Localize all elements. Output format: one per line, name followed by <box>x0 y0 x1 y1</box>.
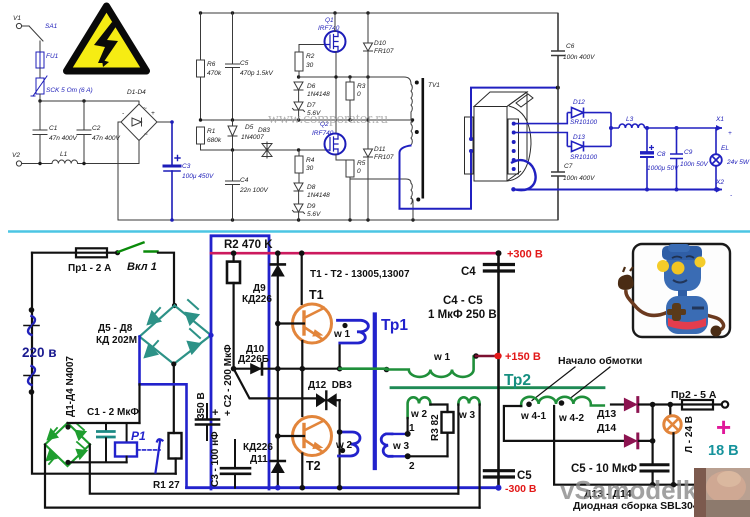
junction <box>671 482 677 488</box>
wire w4 left leg to D14 row <box>504 406 624 441</box>
node +150 dot on column crossing <box>495 353 501 359</box>
switch SA1 <box>22 23 58 41</box>
bridge rectifier D1-D4 <box>121 89 157 141</box>
robot fist right <box>711 326 722 337</box>
junction <box>199 11 202 14</box>
svg-text:w 2: w 2 <box>410 409 428 420</box>
svg-text:1N4007: 1N4007 <box>241 134 264 141</box>
junction <box>496 485 502 491</box>
capacitor C4 <box>226 150 269 220</box>
svg-text:w 1: w 1 <box>333 329 351 340</box>
svg-text:IRF740: IRF740 <box>318 25 340 32</box>
resistor R3 <box>346 77 366 120</box>
svg-text:КД 202М: КД 202М <box>96 335 137 346</box>
winding w4 Tr2 <box>521 397 604 406</box>
junction <box>115 250 120 255</box>
relay P1 coil <box>115 423 146 462</box>
svg-text:D8: D8 <box>307 184 316 191</box>
pointer line 2 <box>570 367 610 399</box>
junction <box>82 162 85 165</box>
AC source symbol upper <box>24 307 39 335</box>
svg-text:680k: 680k <box>207 137 222 144</box>
wire pink +300V rail <box>211 252 499 255</box>
wire w3 right leg long <box>479 405 481 508</box>
wire T2 emitter <box>301 454 303 488</box>
svg-text:R1: R1 <box>207 128 216 135</box>
wire middle bus <box>201 119 413 121</box>
junction node2 <box>405 453 411 459</box>
secondary pins <box>512 122 516 171</box>
wire dark red to +150 <box>476 355 497 357</box>
wire w3 left leg long <box>457 405 459 494</box>
transistor T2 <box>293 417 332 456</box>
svg-text:D11: D11 <box>374 146 386 153</box>
wire D1-D4 top to relay line <box>68 422 140 424</box>
mosfet Q2 IRF740 <box>312 121 346 155</box>
phase dot <box>415 130 419 134</box>
svg-text:FR107: FR107 <box>374 48 394 55</box>
svg-text:100μ 450V: 100μ 450V <box>182 173 214 180</box>
svg-text:Тр1: Тр1 <box>381 317 408 334</box>
svg-text:R3: R3 <box>357 83 366 90</box>
junction <box>297 218 300 221</box>
junction <box>297 118 300 121</box>
wire w1 bottom to bus <box>339 344 341 369</box>
junction <box>231 118 234 121</box>
junction <box>208 333 213 338</box>
svg-text:КД226: КД226 <box>242 294 272 305</box>
junction <box>172 303 177 308</box>
svg-text:TV1: TV1 <box>428 82 440 89</box>
diode D10 FR107 <box>364 13 394 149</box>
svg-text:18 В: 18 В <box>708 443 739 459</box>
svg-text:C5: C5 <box>517 470 532 482</box>
junction <box>231 148 234 151</box>
junction <box>275 366 281 372</box>
svg-text:0: 0 <box>357 168 361 175</box>
svg-text:R2 470 K: R2 470 K <box>224 239 273 251</box>
junction <box>668 402 674 408</box>
terminal output minus <box>724 480 731 487</box>
wire stub bus to TV1 tap <box>411 121 413 123</box>
junction <box>275 321 281 327</box>
svg-text:D12: D12 <box>573 99 585 106</box>
svg-text:V2: V2 <box>12 152 20 159</box>
svg-text:100n 400V: 100n 400V <box>563 175 595 182</box>
wire switch to bridge top <box>158 253 174 305</box>
junction <box>65 424 70 429</box>
svg-text:1 МкФ 250 В: 1 МкФ 250 В <box>428 309 497 321</box>
svg-text:L3: L3 <box>626 116 634 123</box>
resistor R6 <box>197 13 222 120</box>
phase dot <box>416 198 420 202</box>
zener D9 <box>293 203 322 220</box>
svg-text:Д14: Д14 <box>597 422 616 434</box>
capacitor C4 <box>461 265 513 279</box>
resistor R4 <box>295 150 315 183</box>
svg-text:w 3: w 3 <box>392 441 410 452</box>
junction <box>333 11 336 14</box>
svg-text:Q1: Q1 <box>325 17 334 24</box>
wire gate line Q2 <box>201 149 327 151</box>
junction <box>65 460 70 465</box>
relay contact dashed link <box>137 449 160 451</box>
junction <box>300 485 306 491</box>
wire pin2 to D13 <box>514 133 568 147</box>
svg-text:2: 2 <box>409 461 415 472</box>
wire source bus y77 to TV1 <box>299 77 411 84</box>
wire w2 left leg <box>407 418 409 434</box>
svg-text:~: ~ <box>143 105 147 112</box>
robot plug <box>618 275 634 290</box>
diode D6 <box>294 82 330 102</box>
wire switch to fuse <box>39 41 41 52</box>
svg-text:220 в: 220 в <box>22 345 57 360</box>
wire diagonal to diac row <box>234 369 315 399</box>
svg-text:+: + <box>151 110 155 117</box>
wire drain Q1 to rail <box>334 13 336 32</box>
transformer Tr1 core blue <box>373 315 377 469</box>
junction <box>300 366 306 372</box>
wire w3 leads blue <box>392 434 408 456</box>
wire D5-D8 bottom to R1 <box>173 364 175 433</box>
svg-text:Д226Б: Д226Б <box>238 354 269 365</box>
fuse Pr2 <box>670 400 728 410</box>
inductor L1 <box>22 151 139 164</box>
wire top AC line to bridge <box>40 101 139 104</box>
separator cyan line <box>8 230 750 233</box>
TV1 primary winding lower <box>411 122 412 145</box>
svg-text:+300 В: +300 В <box>507 249 543 261</box>
fuse FU1 <box>36 52 59 68</box>
wire bridge bottom to AC line <box>138 141 140 164</box>
junction <box>411 118 414 121</box>
svg-text:Д1-Д4 N4007: Д1-Д4 N4007 <box>65 356 76 417</box>
transformer Tr2 core green <box>391 386 604 389</box>
node +150V <box>494 353 500 359</box>
svg-text:1N4148: 1N4148 <box>307 91 330 98</box>
relay contact blade <box>156 439 163 472</box>
svg-text:Д11: Д11 <box>250 454 268 465</box>
junction <box>645 188 649 192</box>
resistor R2 <box>295 45 315 78</box>
wire blue bottom rail <box>187 486 499 489</box>
junction <box>496 250 502 256</box>
svg-text:C1: C1 <box>49 125 58 132</box>
terminal V2 <box>12 152 22 166</box>
svg-text:L1: L1 <box>60 151 68 158</box>
wire R2 to gate Q1 <box>299 44 326 46</box>
wire T1 emitter down <box>301 341 303 416</box>
winding left plate <box>465 117 474 174</box>
wire fuse to thermistor <box>39 68 41 78</box>
transformer body isometric <box>474 92 533 181</box>
winding w2 Tr2 <box>408 397 431 418</box>
svg-text:w 1: w 1 <box>433 352 451 363</box>
svg-text:100n 50V: 100n 50V <box>680 161 708 168</box>
svg-text:Тр2: Тр2 <box>504 372 531 389</box>
winding w1 Tr1 primary <box>338 320 369 343</box>
phase dot w1 <box>342 323 347 328</box>
svg-text:R2: R2 <box>306 53 315 60</box>
diode D14 <box>624 434 653 448</box>
svg-text:SR10100: SR10100 <box>570 154 597 161</box>
diode D8 <box>294 183 330 204</box>
svg-text:C5: C5 <box>240 60 249 67</box>
zener D7 <box>293 102 322 120</box>
transformer TV1 core <box>422 78 441 199</box>
svg-text:Вкл 1: Вкл 1 <box>127 261 157 273</box>
lamp EL <box>710 128 750 190</box>
svg-text:КД226: КД226 <box>243 442 273 453</box>
svg-text:~: ~ <box>144 131 148 138</box>
wire bridge plus to C3 <box>157 121 172 123</box>
junction <box>511 187 515 191</box>
svg-text:X2: X2 <box>715 179 724 186</box>
svg-text:C9: C9 <box>684 149 693 156</box>
terminal X1 <box>715 116 732 137</box>
svg-text:470p 1.5kV: 470p 1.5kV <box>240 70 274 77</box>
inductor L3 <box>619 116 715 128</box>
robot arm rope left <box>626 290 668 315</box>
svg-text:C6: C6 <box>566 43 575 50</box>
robot arm rope right <box>700 312 724 330</box>
wire blue from bridge left corner <box>140 337 187 488</box>
pointer line 1 <box>532 367 575 401</box>
svg-text:350 В: 350 В <box>196 392 207 419</box>
svg-text:IRF740: IRF740 <box>312 130 334 137</box>
svg-text:+: + <box>728 130 732 137</box>
svg-text:5.6V: 5.6V <box>307 211 321 218</box>
svg-text:Р1: Р1 <box>131 429 146 443</box>
junction <box>231 250 237 256</box>
pin plate <box>508 119 519 174</box>
svg-text:SA1: SA1 <box>45 23 58 30</box>
junction <box>714 188 718 192</box>
junction <box>170 218 174 222</box>
svg-text:Д5 - Д8: Д5 - Д8 <box>98 323 133 334</box>
svg-text:Д9: Д9 <box>253 283 266 294</box>
wire secondary swoosh to output minus <box>511 160 536 190</box>
wire Q1 source to Q2 drain <box>335 52 337 134</box>
capacitor C5 output <box>641 441 668 485</box>
wire D9-D11 column <box>277 324 279 463</box>
TV1 secondary winding <box>411 183 413 220</box>
svg-text:470k: 470k <box>207 70 222 77</box>
junction <box>337 429 343 435</box>
junction <box>366 218 369 221</box>
svg-text:-300 В: -300 В <box>505 483 537 495</box>
svg-text:C4 - C5: C4 - C5 <box>443 295 483 307</box>
svg-text:R3 82: R3 82 <box>430 414 441 441</box>
capacitor C2 <box>77 101 120 164</box>
capacitor C3 electrolytic <box>164 122 214 220</box>
AC source symbol lower <box>24 366 39 395</box>
wire T1 collector <box>301 253 303 304</box>
wire black bridge-left to C1 line <box>138 384 140 423</box>
junction <box>275 433 281 439</box>
primary pins <box>469 137 473 141</box>
wire C4 column black <box>497 253 500 488</box>
wire T2 base <box>278 435 304 437</box>
capacitor C1 teal <box>97 423 114 462</box>
junction node1 <box>405 431 411 437</box>
diode D13 <box>611 398 670 412</box>
svg-text:24v 5W: 24v 5W <box>726 159 750 166</box>
junction <box>171 361 176 366</box>
resistor R5 <box>336 155 366 221</box>
svg-text:Д12 DB3: Д12 DB3 <box>308 380 352 391</box>
junction <box>348 218 351 221</box>
diode D5 <box>228 120 264 150</box>
svg-text:100n 400V: 100n 400V <box>563 54 595 61</box>
svg-text:R5: R5 <box>357 160 366 167</box>
svg-text:w 3: w 3 <box>458 410 476 421</box>
capacitor C5 pair <box>484 470 532 482</box>
junction <box>337 485 343 491</box>
svg-text:R4: R4 <box>306 157 315 164</box>
high voltage warning sign <box>67 6 147 71</box>
junction <box>609 126 613 130</box>
diode D9 KD226 <box>271 253 285 323</box>
junction <box>38 99 41 102</box>
robot body <box>666 296 708 334</box>
diode D11 FR107 <box>364 146 394 220</box>
junction <box>334 75 337 78</box>
wire mains left loop <box>32 253 176 474</box>
svg-text:D10: D10 <box>374 40 386 47</box>
svg-text:C1 - 2 МкФ: C1 - 2 МкФ <box>87 407 139 418</box>
junction <box>82 99 85 102</box>
svg-text:w 4-1: w 4-1 <box>520 411 546 422</box>
capacitor C6 <box>551 13 595 88</box>
junction <box>297 148 300 151</box>
junction <box>366 11 369 14</box>
svg-text:+150 В: +150 В <box>505 351 541 363</box>
svg-text:C4: C4 <box>240 177 249 184</box>
phase dot w4-2 <box>559 400 565 406</box>
junction <box>675 188 679 192</box>
winding w3 Tr2 <box>458 397 479 404</box>
junction <box>650 402 656 408</box>
junction <box>231 218 234 221</box>
wire pin1 to D12 <box>514 113 568 124</box>
svg-text:C8: C8 <box>657 151 666 158</box>
diode D10 D226B <box>250 363 262 374</box>
resistor R1 27 <box>153 433 182 491</box>
capacitor C7 <box>551 88 595 220</box>
svg-text:22n 100V: 22n 100V <box>239 187 268 194</box>
capacitor C5 <box>226 13 274 120</box>
wire w2 right leg to R3 <box>430 405 447 413</box>
phase dot w4-1 <box>526 402 532 408</box>
svg-text:C3: C3 <box>182 163 191 170</box>
svg-text:30: 30 <box>306 165 314 172</box>
svg-text:w 4-2: w 4-2 <box>558 413 584 424</box>
svg-text:w 2: w 2 <box>335 440 353 451</box>
capacitor C9 <box>670 128 708 190</box>
wire bottom return 2 <box>45 445 480 508</box>
wire middle bus y368 <box>234 368 340 370</box>
svg-text:C3 - 100 нФ: C3 - 100 нФ <box>210 431 221 487</box>
wire center tap down <box>554 406 724 485</box>
thermistor SCK 5 Om <box>31 76 93 96</box>
wire blue primary top <box>471 88 558 139</box>
junction <box>348 75 351 78</box>
svg-text:T2: T2 <box>306 459 321 473</box>
phase dot <box>415 81 419 85</box>
diac DB3 <box>258 127 272 158</box>
wire fuse to switch <box>107 252 117 254</box>
svg-text:SCK 5 Om (6 A): SCK 5 Om (6 A) <box>46 87 93 94</box>
capacitor C8 electrolytic <box>640 128 679 190</box>
winding w2 Tr1 <box>339 432 361 456</box>
junction <box>473 353 479 359</box>
junction <box>366 118 369 121</box>
TV1 primary winding upper <box>411 84 412 120</box>
wire diode join <box>611 113 619 147</box>
svg-text:Начало обмотки: Начало обмотки <box>558 355 642 367</box>
svg-text:D6: D6 <box>307 83 316 90</box>
lamp L24V <box>664 405 681 485</box>
wire diac to w2 node <box>339 400 341 489</box>
svg-text:0: 0 <box>357 91 361 98</box>
winding w3 Tr1 <box>381 434 392 456</box>
svg-text:V1: V1 <box>13 15 21 22</box>
robot head <box>657 244 706 291</box>
wire R5 bottom to TV1 secondary <box>350 179 411 183</box>
svg-text:1N4148: 1N4148 <box>307 192 330 199</box>
diac D12 DB3 <box>316 392 340 410</box>
svg-text:D83: D83 <box>258 127 270 134</box>
svg-text:FU1: FU1 <box>46 53 59 60</box>
junction <box>650 482 656 488</box>
junction <box>199 118 202 121</box>
svg-text:D13: D13 <box>573 134 585 141</box>
junction <box>275 485 281 491</box>
svg-text:1: 1 <box>409 423 415 434</box>
svg-text:1000μ 50V: 1000μ 50V <box>647 165 679 172</box>
svg-text:R1 27: R1 27 <box>153 480 180 491</box>
svg-text:R6: R6 <box>207 61 216 68</box>
wire thermistor down to node <box>39 94 41 101</box>
wire blue box <box>211 236 269 489</box>
phase dot w2 <box>340 448 345 453</box>
robot neck <box>678 290 687 297</box>
svg-text:FR107: FR107 <box>374 154 394 161</box>
wire blue TV1 lower to 3D transformer <box>400 146 472 209</box>
wire black bus end to green w1 <box>384 367 390 373</box>
junction <box>348 118 351 121</box>
svg-text:+ C2 - 200 МкФ: + C2 - 200 МкФ <box>223 344 234 416</box>
junction <box>645 126 649 130</box>
resistor R3 82 <box>430 412 454 456</box>
junction <box>556 86 560 90</box>
transistor T1 <box>293 304 332 343</box>
winding w1 Tr2 green <box>340 357 476 377</box>
wire mains top to fuse <box>32 252 76 254</box>
svg-text:T1: T1 <box>309 288 324 302</box>
svg-text:+: + <box>212 407 218 419</box>
mosfet Q1 IRF740 <box>318 17 346 52</box>
fuse Pr1 2A <box>68 248 111 274</box>
robot picture box <box>618 244 730 337</box>
diode D12 SR10100 <box>567 99 611 126</box>
junction <box>650 438 656 444</box>
capacitor C1 <box>33 101 77 164</box>
photo corner <box>694 468 750 517</box>
wire output minus <box>513 189 715 191</box>
